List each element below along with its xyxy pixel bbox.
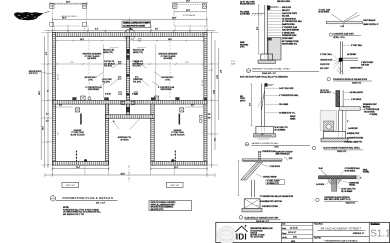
right unit column footing pad <box>155 96 159 100</box>
svg-text:6 MIL VAPOR BARRIER: 6 MIL VAPOR BARRIER <box>282 29 300 32</box>
svg-text:SCALE: N.T.S.: SCALE: N.T.S. <box>337 150 347 153</box>
left unit interior dimension line <box>56 62 127 65</box>
svg-text:#4 REBAR CONT.: #4 REBAR CONT. <box>347 132 360 135</box>
svg-text:SLOPE TO DOOR: SLOPE TO DOOR <box>71 135 86 137</box>
IDI logo (house with gable) <box>236 225 248 241</box>
svg-text:8″ CONC. WALL: 8″ CONC. WALL <box>320 53 332 56</box>
svg-text:6′-8″: 6′-8″ <box>46 120 49 122</box>
svg-text:W/ 6x6 W.W.M.: W/ 6x6 W.W.M. <box>319 12 330 14</box>
svg-text:10′-8″: 10′-8″ <box>186 10 190 12</box>
plan centerline (dash-dot) <box>128 165 130 182</box>
svg-text:SLOPE TOP OF STOOP: SLOPE TOP OF STOOP <box>276 151 293 153</box>
svg-text:28′-0″: 28′-0″ <box>212 90 214 94</box>
svg-text:2x6 P.T. SILL PLATE: 2x6 P.T. SILL PLATE <box>279 87 293 90</box>
detail B right-side leader notes <box>265 87 299 132</box>
detail C title bubble and label <box>239 216 280 224</box>
svg-text:10′-1 1/2″: 10′-1 1/2″ <box>201 80 203 87</box>
secondary top dimension line with tick marks <box>45 29 215 32</box>
svg-text:SCALE: N.T.S.: SCALE: N.T.S. <box>352 81 362 84</box>
svg-text:3′-0″: 3′-0″ <box>208 114 211 116</box>
detail F slab and leaders <box>339 103 379 116</box>
svg-text:24′-0″: 24′-0″ <box>66 2 71 4</box>
wall: porch front wall <box>105 115 154 118</box>
svg-text:UNIT #02: UNIT #02 <box>170 185 180 187</box>
left garage step marker <box>80 114 82 125</box>
svg-text:2x6 WALL ABOVE: 2x6 WALL ABOVE <box>350 91 363 94</box>
right garage slab note <box>171 129 186 137</box>
left garage column pad <box>75 108 79 112</box>
svg-text:SEE ARCH. DWGS.: SEE ARCH. DWGS. <box>277 0 291 3</box>
right unit basement slab note <box>159 52 179 60</box>
svg-text:2x6 P.T. SILL: 2x6 P.T. SILL <box>320 90 329 92</box>
wall: left garage inner wall <box>105 104 108 165</box>
svg-text:#4 REBAR AT 48″ O.C.: #4 REBAR AT 48″ O.C. <box>279 111 296 114</box>
svg-text:ANCHOR BOLTS: ANCHOR BOLTS <box>350 66 362 69</box>
svg-text:MILFORD, CT 06460: MILFORD, CT 06460 <box>250 234 264 236</box>
right unit beam centerline (dashed) <box>169 38 171 98</box>
left unit basement slab note <box>83 52 103 60</box>
left wall tick texts <box>46 114 49 123</box>
detail A right-side leader notes <box>267 7 302 45</box>
svg-text:4″ P.T.: 4″ P.T. <box>231 61 236 63</box>
svg-text:Scale:: Scale: <box>282 228 286 230</box>
svg-text:2x4 KEYWAY: 2x4 KEYWAY <box>348 127 357 130</box>
svg-text:ANCHOR BOLT: ANCHOR BOLT <box>84 76 96 79</box>
svg-text:5′-2″: 5′-2″ <box>59 105 62 107</box>
left garage wall dark pad <box>72 97 76 100</box>
svg-text:4″ CONCRETE SLAB: 4″ CONCRETE SLAB <box>282 26 297 29</box>
svg-text:1/2″R: 1/2″R <box>289 158 294 160</box>
svg-text:4″ CONCRETE SLAB: 4″ CONCRETE SLAB <box>345 167 360 170</box>
left anchor bolt leader note <box>29 70 52 92</box>
svg-text:2x6 P.T. SILL PLATE: 2x6 P.T. SILL PLATE <box>240 0 255 3</box>
svg-text:ALL DIMS. PRIOR TO CONSTR.: ALL DIMS. PRIOR TO CONSTR. <box>123 24 146 27</box>
svg-text:SLAB ON GRADE FOUNDATION WALL: SLAB ON GRADE FOUNDATION WALL DETAIL <box>323 147 360 150</box>
svg-text:44′-8″: 44′-8″ <box>121 173 126 175</box>
plan extension lines left <box>41 33 52 166</box>
detail A left dimension line <box>257 5 260 54</box>
left unit upper interior dimension line <box>56 39 127 48</box>
svg-text:9′-8″: 9′-8″ <box>58 132 60 135</box>
detail E: foundation corner at garage door <box>337 41 374 75</box>
detail C sloped ramp hatch <box>241 162 280 180</box>
svg-text:4″ BRICK SHELF: 4″ BRICK SHELF <box>361 62 373 64</box>
right garage wall dark pad <box>175 97 179 100</box>
svg-text:GARAGE FOUNDATION WALL: GARAGE FOUNDATION WALL <box>251 142 279 145</box>
svg-text:FOUNDATION PLAN & DETAILS: FOUNDATION PLAN & DETAILS <box>325 240 359 243</box>
svg-text:1/8″ = 1′-0″: 1/8″ = 1′-0″ <box>96 202 106 204</box>
garage width dimension lines <box>53 167 208 171</box>
left unit beam centerline (dashed) <box>88 38 90 98</box>
svg-text:6x6 W.W.M.: 6x6 W.W.M. <box>164 58 174 60</box>
wall: rear foundation wall <box>53 33 208 37</box>
wall: right foundation wall <box>204 33 207 166</box>
general contractor note box above party wall <box>122 21 151 28</box>
detail B title bubble and label <box>245 142 310 149</box>
svg-text:FTG. (TYP.): FTG. (TYP.) <box>133 81 141 83</box>
svg-text:8′-0″: 8′-0″ <box>257 26 259 30</box>
right unit upper interior dimension line <box>132 39 203 48</box>
svg-text:3′-0″: 3′-0″ <box>46 114 49 116</box>
title block outer frame <box>216 222 390 242</box>
svg-text:12′-0″: 12′-0″ <box>186 1 190 3</box>
svg-text:FROST: FROST <box>240 98 245 100</box>
rotated wall dimension texts inside <box>58 73 203 135</box>
detail C left dimension line <box>238 161 240 196</box>
svg-text:4″ P.T.: 4″ P.T. <box>209 70 214 72</box>
left garage door center dashes <box>76 151 78 164</box>
svg-text:6″ CONCRETE FND. WALL AT GARAG: 6″ CONCRETE FND. WALL AT GARAGE DOOR <box>260 195 294 198</box>
svg-text:1″ CONC. COVER: 1″ CONC. COVER <box>267 181 280 183</box>
svg-text:JOINT SEALANT: JOINT SEALANT <box>363 19 375 22</box>
svg-text:24′-8″: 24′-8″ <box>172 18 177 20</box>
detail A earth hatch region <box>268 38 281 61</box>
svg-text:4′-0″: 4′-0″ <box>249 102 251 106</box>
left unit anchor bolt note with leader <box>84 72 104 82</box>
title block data cells <box>281 222 313 243</box>
right garage column pad <box>180 108 184 112</box>
svg-text:10″ CONCRETE FND. WALL: 10″ CONCRETE FND. WALL <box>282 20 302 23</box>
detail D: concrete slab control joint <box>319 8 380 28</box>
svg-text:9′-8″: 9′-8″ <box>213 138 215 141</box>
svg-text:2x6 KEYWAY: 2x6 KEYWAY <box>347 53 356 56</box>
svg-text:8′-4″: 8′-4″ <box>46 52 48 55</box>
right stoop (dashed outline with pier pads) <box>173 4 207 33</box>
svg-text:GENERAL CONTRACTOR TO VERIFY: GENERAL CONTRACTOR TO VERIFY <box>123 22 151 25</box>
svg-text:24′-0″: 24′-0″ <box>80 39 84 41</box>
svg-text:11′-6″: 11′-6″ <box>185 62 189 64</box>
svg-text:SUB FLOOR: SUB FLOOR <box>282 7 292 9</box>
svg-text:8′-0″: 8′-0″ <box>219 70 221 73</box>
svg-text:24′-8″: 24′-8″ <box>62 18 67 20</box>
svg-text:22′-4″: 22′-4″ <box>174 167 178 169</box>
svg-text:3/4″ CRUSHED STONE: 3/4″ CRUSHED STONE <box>282 41 299 43</box>
svg-text:COL. ON 24x24: COL. ON 24x24 <box>104 63 115 65</box>
svg-text:CONCRETE SLAB JOINT: CONCRETE SLAB JOINT <box>333 32 354 35</box>
firm name and address <box>250 227 273 238</box>
left stoop dimension line 24'-0" <box>50 1 87 5</box>
party wall beam connection diamonds <box>126 55 129 96</box>
porch footing note with leaders <box>113 119 141 142</box>
svg-text:6′-0″: 6′-0″ <box>155 29 159 31</box>
svg-text:SEE NOTE (TYP.): SEE NOTE (TYP.) <box>151 209 164 211</box>
svg-text:W/ #4 REBAR TOP & BOTTOM: W/ #4 REBAR TOP & BOTTOM <box>260 200 283 203</box>
svg-text:16″x8″ CONC. FTG.: 16″x8″ CONC. FTG. <box>275 127 289 129</box>
detail G title bubble and label <box>316 196 359 205</box>
svg-text:1″ AIR SPACE: 1″ AIR SPACE <box>351 98 361 101</box>
detail G: thickened slab at bearing wall <box>319 175 362 191</box>
unit interior vertical dimension lines <box>104 44 156 98</box>
wall: right garage front wall <box>151 161 207 165</box>
svg-text:4″ GRAVEL BASE: 4″ GRAVEL BASE <box>282 31 295 34</box>
architect seal watermark <box>218 226 236 243</box>
svg-text:FTG. (TYP.): FTG. (TYP.) <box>102 81 110 83</box>
svg-text:12″x12″ CONC. FTG.: 12″x12″ CONC. FTG. <box>341 189 356 191</box>
svg-text:2-1/8: 2-1/8 <box>340 26 344 28</box>
detail E left leader notes <box>320 53 339 70</box>
svg-text:84 OLD ACADEMY STREET: 84 OLD ACADEMY STREET <box>321 226 362 230</box>
svg-text:Drawn:: Drawn: <box>282 233 287 235</box>
detail A title bubble and label <box>240 68 319 79</box>
svg-text:ANCHOR BOLTS: ANCHOR BOLTS <box>29 70 41 73</box>
svg-text:PROOFING: PROOFING <box>240 44 249 46</box>
svg-text:ADDITIONAL FTG.: ADDITIONAL FTG. <box>118 136 132 139</box>
svg-text:STEEL: STEEL <box>363 169 368 171</box>
small callout bubble right of section circle <box>138 38 141 41</box>
svg-text:22′-4″: 22′-4″ <box>76 167 80 169</box>
svg-text:DETAIL – N.T.S.: DETAIL – N.T.S. <box>333 36 345 39</box>
right garage front wall dimension <box>185 105 203 107</box>
svg-text:SAWN CONTROL JT.: SAWN CONTROL JT. <box>363 23 379 26</box>
plan extension lines right <box>207 33 219 166</box>
left garage door pad circle <box>84 159 87 162</box>
detail A: basement wall section <box>240 0 291 54</box>
right unit anchor bolt note with leader <box>154 72 174 82</box>
svg-text:SLAB DETAIL AT GARAGE DOOR STE: SLAB DETAIL AT GARAGE DOOR STEP <box>244 216 279 219</box>
left unit concrete slab note with leader <box>85 82 108 92</box>
overall bottom dimension line <box>45 173 215 177</box>
svg-text:4″ GRAVEL: 4″ GRAVEL <box>370 113 378 116</box>
svg-text:DAMPPROOFING: DAMPPROOFING <box>282 23 296 26</box>
svg-text:SCALE: 3/4″ = 1′-0″: SCALE: 3/4″ = 1′-0″ <box>262 72 276 75</box>
svg-text:MIN.: MIN. <box>240 96 244 98</box>
plan extension lines top <box>53 21 208 33</box>
detail C wall and footing <box>242 180 294 212</box>
svg-text:1/2″ ANCHOR BOLT: 1/2″ ANCHOR BOLT <box>282 17 296 20</box>
svg-text:28′-0″: 28′-0″ <box>39 91 41 95</box>
left garage wall callout circle <box>88 97 91 100</box>
svg-text:8′-4″: 8′-4″ <box>95 29 99 31</box>
svg-text:S1.1: S1.1 <box>370 228 390 239</box>
left stoop (dashed outline with corner footing pads) <box>50 4 87 33</box>
svg-text:2x10 FLOOR JOISTS: 2x10 FLOOR JOISTS <box>282 13 297 15</box>
top-left revision note (dense black stamp) with leader <box>14 11 50 20</box>
svg-text:DOOR STOP: DOOR STOP <box>320 64 330 66</box>
left unit column footing pad <box>81 96 85 100</box>
detail B left dimension and notes <box>240 84 252 126</box>
overall top dimension line <box>53 18 208 22</box>
left garage slab note <box>71 129 86 137</box>
svg-text:SCALE: N.T.S.: SCALE: N.T.S. <box>346 202 356 205</box>
svg-text:DEPTH: DEPTH <box>240 100 245 102</box>
svg-text:(TYP.): (TYP.) <box>165 80 170 82</box>
svg-text:EXPANSION JOINT: EXPANSION JOINT <box>363 103 377 106</box>
svg-text:BRG. WALL DETAIL (UNITS 1 & 2): BRG. WALL DETAIL (UNITS 1 & 2) <box>324 198 351 201</box>
svg-text:8″: 8″ <box>347 121 349 123</box>
boxed construction note <box>149 201 192 211</box>
right garage door center dashes <box>174 151 176 164</box>
svg-text:SLOPE TO DOOR: SLOPE TO DOOR <box>171 135 186 137</box>
svg-text:12′-6″: 12′-6″ <box>216 75 218 79</box>
wall: center party wall <box>126 37 129 119</box>
svg-text:N.T.S.: N.T.S. <box>275 146 280 148</box>
svg-text:W8x18 STL. BM.: W8x18 STL. BM. <box>133 50 145 52</box>
right unit interior dimension line <box>132 62 203 65</box>
svg-text:FTG. (TYP.): FTG. (TYP.) <box>104 66 112 68</box>
plan notes under title <box>63 207 101 216</box>
svg-text:FOUNDATION DETAIL AT GARAGE DO: FOUNDATION DETAIL AT GARAGE DOOR <box>333 78 368 81</box>
drawing title bubble <box>50 196 55 201</box>
svg-text:10′-1 1/2″: 10′-1 1/2″ <box>58 73 60 80</box>
svg-text:2″ AIR SPACE: 2″ AIR SPACE <box>270 165 280 168</box>
detail A left notes <box>240 41 249 48</box>
svg-text:CONCRETE FOOTING: CONCRETE FOOTING <box>262 206 279 208</box>
svg-text:ANCHOR BOLT: ANCHOR BOLT <box>161 76 173 79</box>
detail G leader notes <box>316 167 369 193</box>
right side text note <box>208 61 236 141</box>
svg-text:PERIMETER DRAIN: PERIMETER DRAIN <box>282 34 296 37</box>
svg-text:10′-2″: 10′-2″ <box>43 126 45 130</box>
svg-text:(TYP.): (TYP.) <box>240 47 245 49</box>
detail D title bubble and label <box>329 32 361 39</box>
svg-text:SLAB: SLAB <box>319 167 323 170</box>
sheet number cell S1.1 <box>369 222 390 242</box>
svg-text:4″ CONCRETE SLAB: 4″ CONCRETE SLAB <box>85 86 102 89</box>
svg-text:GRADE: GRADE <box>290 115 295 118</box>
svg-text:FIN. GRADE: FIN. GRADE <box>240 10 249 13</box>
svg-text:6′-8″: 6′-8″ <box>208 117 211 119</box>
right side dimension lines <box>211 32 221 168</box>
svg-text:GARAGE DOOR: GARAGE DOOR <box>320 59 333 62</box>
detail E title bubble and label <box>327 78 372 85</box>
svg-text:FIN. GRADE: FIN. GRADE <box>279 103 288 106</box>
svg-text:W/ 6x6 W.W.M.: W/ 6x6 W.W.M. <box>364 111 375 113</box>
svg-text:11′-6″: 11′-6″ <box>70 62 74 64</box>
wall: front basement wall <box>53 100 208 104</box>
party wall left column notes <box>102 50 115 96</box>
detail A footing <box>258 54 275 63</box>
wall: left garage front wall <box>53 161 109 165</box>
svg-text:6x6 W.W.M.: 6x6 W.W.M. <box>316 184 325 186</box>
svg-text:EXP. JOINT: EXP. JOINT <box>320 68 328 70</box>
svg-text:IDI: IDI <box>236 232 247 241</box>
svg-text:FILTER FABRIC: FILTER FABRIC <box>282 37 294 40</box>
svg-text:CONCRETE SLAB: CONCRETE SLAB <box>262 150 275 153</box>
svg-text:FOUNDATION PLAN & DETAILS: FOUNDATION PLAN & DETAILS <box>63 196 114 200</box>
right garage step marker <box>179 114 181 125</box>
party wall column symbols <box>118 49 138 95</box>
UNIT #02 label box <box>166 182 183 187</box>
svg-text:NOTE: SEE FLOOR PLANS FOR ALL: NOTE: SEE FLOOR PLANS FOR ALL WALL & FTG… <box>240 76 288 79</box>
detail F wall, soil and footing <box>29 110 364 143</box>
svg-text:4″: 4″ <box>360 177 362 179</box>
svg-text:DAMP-: DAMP- <box>240 41 245 44</box>
svg-text:SILL SEAL: SILL SEAL <box>282 15 290 18</box>
svg-text:3 1/2″ DIA. STL.: 3 1/2″ DIA. STL. <box>104 60 115 63</box>
svg-text:SUITE 2B: SUITE 2B <box>250 232 257 234</box>
detail F: slab on grade at foundation wall <box>320 90 363 107</box>
svg-text:MIN. BEARING CAP. 2 TSF.: MIN. BEARING CAP. 2 TSF. <box>63 213 85 216</box>
detail B: garage foundation wall section <box>258 83 274 126</box>
detail F title bubble and label <box>312 146 363 153</box>
svg-text:5′-2″: 5′-2″ <box>191 105 194 107</box>
right garage door pad circle <box>171 159 174 162</box>
svg-text:RIM JOIST: RIM JOIST <box>282 10 290 12</box>
plan extension lines bottom <box>45 165 215 177</box>
svg-text:UNIT #01: UNIT #01 <box>66 185 76 187</box>
party wall leader lines <box>110 63 149 86</box>
wall: right garage inner wall <box>151 104 154 165</box>
svg-text:INNOVATIVE DESIGN, INC.: INNOVATIVE DESIGN, INC. <box>250 227 273 230</box>
svg-text:8″ CONCRETE FND. WALL: 8″ CONCRETE FND. WALL <box>279 94 298 97</box>
party wall right column notes <box>132 50 145 96</box>
detail C: slab at garage door step <box>242 150 293 162</box>
svg-text:FTG. (TYP.): FTG. (TYP.) <box>133 66 141 68</box>
svg-text:8″ CONC. WALL: 8″ CONC. WALL <box>351 44 362 47</box>
left side dimension lines <box>39 32 49 168</box>
svg-text:Job No:: Job No: <box>282 237 287 239</box>
detail B footing <box>254 126 276 139</box>
section callout circle on party wall <box>124 27 135 41</box>
right wall inner pads <box>199 115 202 122</box>
svg-text:W8x18 STL. BM.: W8x18 STL. BM. <box>103 50 115 52</box>
front wall junction blobs <box>104 97 207 100</box>
svg-text:4″ SLAB: 4″ SLAB <box>105 93 111 96</box>
wall: left foundation wall <box>53 33 56 166</box>
svg-text:10-27-05: 10-27-05 <box>290 227 298 229</box>
svg-text:UNDISTURBED SOIL: UNDISTURBED SOIL <box>282 44 297 46</box>
project title cell <box>313 223 369 243</box>
svg-text:24′-0″: 24′-0″ <box>168 39 172 41</box>
svg-text:BASEMENT FOUNDATION WALL DETAI: BASEMENT FOUNDATION WALL DETAIL <box>252 68 291 71</box>
svg-text:1/4″=1′-0″: 1/4″=1′-0″ <box>288 232 296 234</box>
svg-text:TROWEL: TROWEL <box>363 172 370 174</box>
svg-text:PRIOR TO POURING CONCRETE: PRIOR TO POURING CONCRETE <box>151 202 176 204</box>
svg-text:STOOP ABOVE: STOOP ABOVE <box>183 14 196 17</box>
right stoop dimension line <box>172 1 208 12</box>
svg-text:4″ CONC. SLAB: 4″ CONC. SLAB <box>319 8 331 11</box>
svg-text:ASPHALT PAVING: ASPHALT PAVING <box>263 176 277 179</box>
svg-text:CONCRETE FOOTING: CONCRETE FOOTING <box>347 138 364 140</box>
left garage front wall dimension <box>52 105 72 107</box>
drawing title: FOUNDATION PLAN & DETAILS <box>56 196 118 205</box>
porch pads at party wall base <box>121 101 134 112</box>
detail C highlighted note box <box>266 180 285 185</box>
svg-text:4″ CONCRETE SLAB: 4″ CONCRETE SLAB <box>158 86 175 89</box>
UNIT #01 label box <box>62 182 79 187</box>
right unit concrete slab note with leader <box>152 82 175 92</box>
svg-text:W/ 6x6 W.W.M.: W/ 6x6 W.W.M. <box>345 170 356 172</box>
svg-text:COMPACTED: COMPACTED <box>349 181 360 184</box>
svg-text:TEL: 203.877.1482: TEL: 203.877.1482 <box>250 236 263 238</box>
